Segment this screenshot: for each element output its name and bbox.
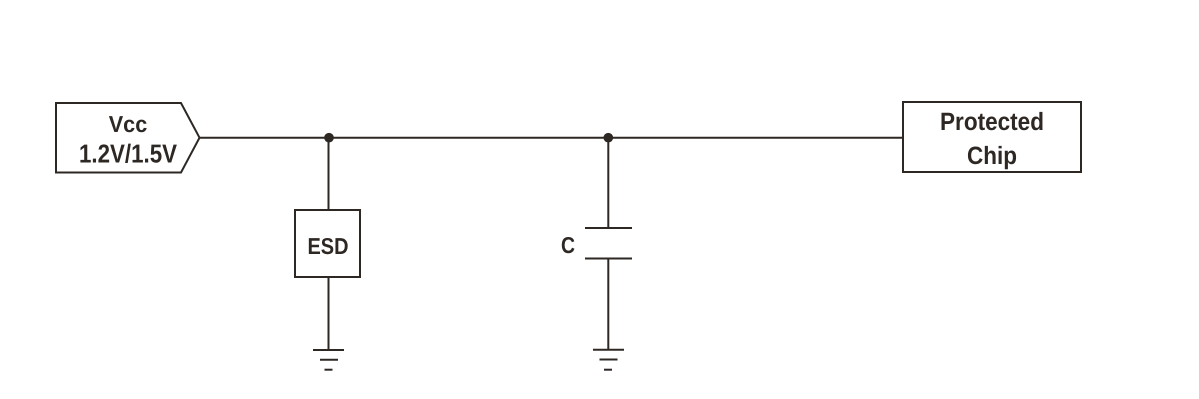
wire: junction to capacitor C (607, 138, 609, 228)
wire: ESD box to ground (328, 277, 330, 350)
power flag Vcc 1.2V/1.5V (56, 103, 200, 173)
svg-text:Vcc: Vcc (109, 111, 148, 137)
wire: junction to ESD box (328, 138, 330, 210)
ground (below capacitor) (593, 350, 624, 370)
ground (below ESD) (313, 350, 344, 370)
svg-text:Protected: Protected (940, 108, 1044, 136)
protected chip block (903, 102, 1081, 172)
junction node at capacitor tap (604, 133, 614, 143)
capacitor C (561, 228, 632, 259)
svg-text:1.2V/1.5V: 1.2V/1.5V (79, 139, 178, 169)
ESD protection device (295, 210, 360, 277)
junction node at ESD tap (324, 133, 334, 143)
svg-text:C: C (561, 232, 575, 258)
wire: capacitor to ground (607, 259, 609, 351)
svg-text:ESD: ESD (308, 233, 349, 259)
svg-text:Chip: Chip (967, 142, 1017, 170)
wire: Vcc supply rail to Protected Chip (200, 137, 904, 139)
